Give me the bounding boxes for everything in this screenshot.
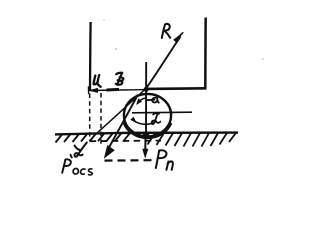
wall bottom horizontal line: [146, 87, 207, 90]
label mu: [94, 75, 101, 87]
dashed horizontal line upper: [90, 140, 161, 143]
ground hatching: [56, 133, 237, 147]
label Pn: [156, 150, 173, 170]
ground line: [55, 133, 238, 135]
label R: [162, 24, 170, 38]
force R extension to ground: [97, 89, 147, 134]
label B: [116, 73, 124, 85]
paper noise dots: [115, 48, 117, 50]
label alpha with leading bar: [147, 98, 159, 103]
label f: [75, 143, 87, 157]
force R arrowhead: [173, 32, 183, 43]
dashed vertical line 2: [100, 93, 102, 146]
dimension line with left arrow: [89, 89, 146, 92]
wall left vertical line: [89, 22, 92, 90]
force R line: [146, 37, 181, 89]
label Pocs: [62, 155, 92, 175]
mid horizontal line: [132, 111, 192, 114]
wheel double-stroke bottom arc: [124, 123, 172, 138]
axle vertical line: [145, 62, 147, 138]
wheel circle: [124, 94, 171, 137]
junction ink blob: [144, 87, 149, 92]
Pocs arrowhead: [104, 145, 115, 159]
dashed vertical line 1: [89, 94, 91, 142]
contact ink blob: [143, 132, 149, 136]
angle arc phi: [132, 120, 156, 125]
wall right vertical line: [204, 18, 207, 89]
force Pocs line: [107, 95, 139, 153]
force Pn arrow: [144, 137, 146, 154]
label phi: [152, 113, 161, 124]
angle arc alpha: [138, 98, 147, 104]
dashed horizontal line lower: [105, 159, 153, 162]
